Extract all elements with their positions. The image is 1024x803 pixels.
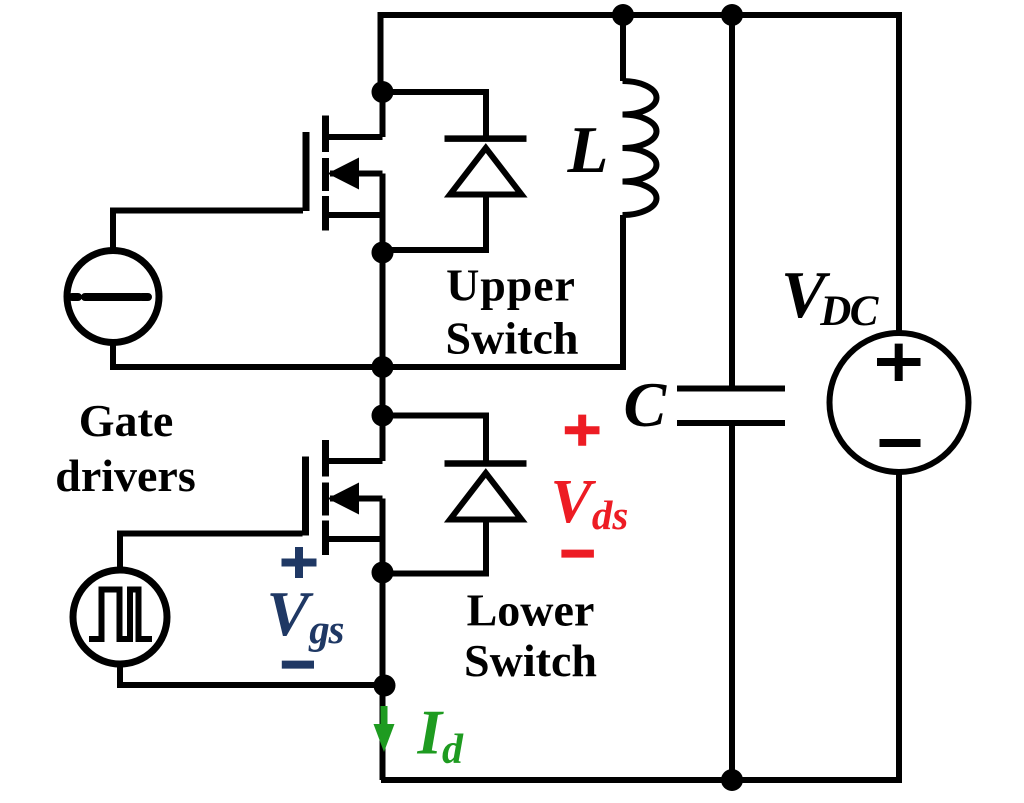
source V2 (lower gate driver, double pulse) [73,570,383,685]
node: upper drain [372,81,394,103]
diode D1 (upper freewheeling) [383,92,527,250]
capacitor C [677,15,785,780]
node: lower source [372,562,394,584]
wire phase leg upper [380,92,386,137]
node: capacitor top [721,4,743,26]
label Vgs [282,547,317,665]
source V1 (upper gate driver) [67,251,383,368]
node: phase [372,356,394,378]
current arrow Id [374,706,395,752]
svg-text:drivers: drivers [55,450,196,501]
wire phase leg lower [380,499,386,781]
svg-text:L: L [567,113,609,187]
svg-text:Gate: Gate [79,395,174,446]
node: inductor top [612,4,634,26]
node: upper source [372,242,394,264]
svg-text:Switch: Switch [464,635,597,686]
svg-text:Switch: Switch [446,313,579,364]
node: lower drain [372,405,394,427]
svg-text:Upper: Upper [446,260,576,311]
node: driver return [374,675,396,697]
wire bottom rail [381,469,899,780]
inductor L [383,15,657,367]
node: capacitor bottom [721,769,743,791]
transistor Q1 (upper MOSFET) [113,116,383,251]
svg-text:Lower: Lower [467,584,595,635]
svg-text:C: C [624,369,668,440]
diode D2 (lower freewheeling) [383,416,527,574]
transistor Q2 (lower MOSFET) [120,440,383,570]
wire top rail [381,15,900,336]
wire phase leg middle [380,174,386,462]
label Vds [561,415,599,554]
source VDC [830,333,969,472]
